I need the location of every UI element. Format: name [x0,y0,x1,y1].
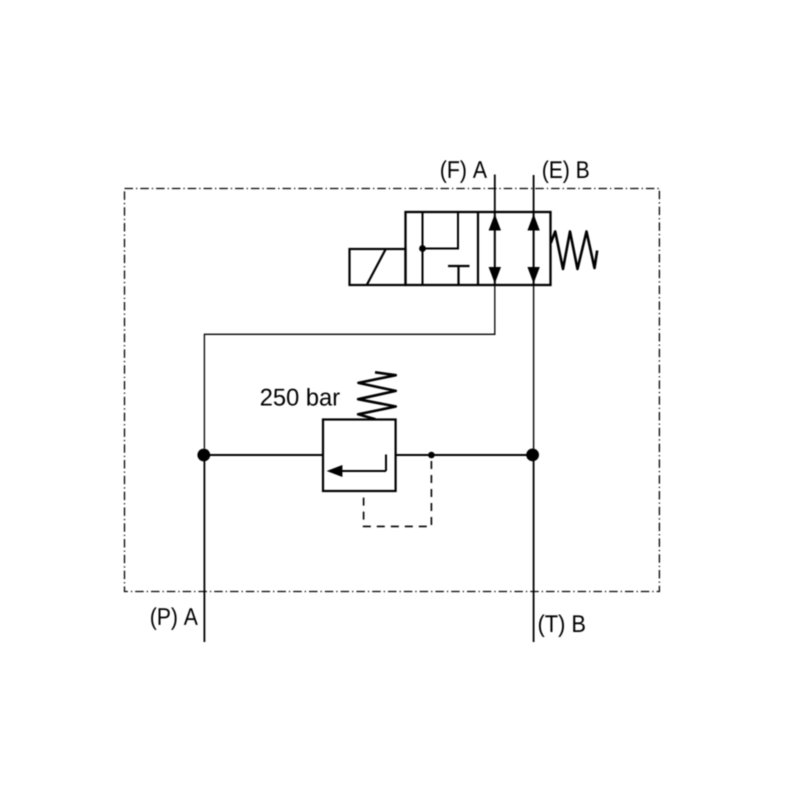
wire: E/B line from valve down to node T [533,285,535,449]
wire: port T/B line below node [533,455,535,642]
wire: port P/A line below node [203,455,205,642]
valve left position: vertical flow line [422,212,424,285]
node: junction dot T side [526,449,539,462]
valve right position: arrowhead down (shaft 1) [489,267,501,284]
directional valve V1: return spring [551,232,597,270]
valve right position: arrowhead up (shaft 1) [489,214,501,231]
directional valve V1: position divider line [477,212,479,285]
manifold boundary (dash-dot enclosure) [125,189,660,592]
wire: jog from valve port F/A down-left to node P [204,285,494,449]
valve right position: arrowhead down (shaft 2) [527,267,539,284]
port label (E) B [543,160,589,183]
relief valve RV1: adjustment spring [358,372,396,419]
node: junction dot P side [197,449,210,462]
value label 250 bar [261,388,340,406]
wire: main horizontal line, left segment (node P to relief valve) [204,454,323,456]
directional valve V1: valve body (two position squares) [406,212,551,285]
valve left position: junction dot [419,245,426,252]
directional valve V1: solenoid actuator box [350,249,406,285]
wire: port E/B line above valve [533,175,535,213]
relief valve RV1: internal arrow line [341,470,386,472]
valve right position: flow arrow shaft 2 [533,213,535,285]
port label (T) B [539,614,585,637]
relief valve RV1: pilot line (dashed) [364,455,432,526]
valve left position: branch vertical line to top [457,212,459,250]
directional valve V1: solenoid diagonal stroke [367,250,386,285]
node: pilot tap junction dot [428,452,435,459]
valve right position: flow arrow shaft 1 [494,213,496,285]
relief valve RV1: body box [323,420,396,492]
valve right position: arrowhead up (shaft 2) [527,214,539,231]
valve left position: branch horizontal line [423,248,459,250]
wire: main horizontal line, right segment (relief valve to node T) [396,454,533,456]
wire: port F/A line above valve [494,175,496,214]
valve left position: blocked port T crossbar [448,265,470,267]
port label (P) A [151,607,198,630]
port label (F) A [441,160,487,183]
relief valve RV1: internal flow stub [385,455,387,472]
valve left position: blocked port T stem [457,266,459,285]
relief valve RV1: internal arrowhead (points left) [327,465,343,477]
